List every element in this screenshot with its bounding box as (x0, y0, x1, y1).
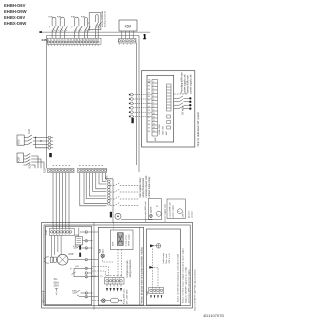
svg-text:EHBX-D9W: EHBX-D9W (4, 21, 26, 26)
svg-text:35: 35 (85, 259, 87, 261)
svg-text:X2M: X2M (41, 38, 48, 42)
svg-text:230 V + N: 230 V + N (169, 253, 171, 263)
svg-text:backup heater kit: backup heater kit (104, 11, 107, 27)
svg-text:Options: ON/OFF output (max. 0: Options: ON/OFF output (max. 0.3A) (184, 267, 187, 303)
svg-text:Notice: set heat source output: Notice: set heat source output, solar pu… (181, 248, 184, 303)
svg-text:10: 10 (74, 39, 76, 41)
svg-text:5: 5 (60, 39, 61, 41)
svg-text:4: 4 (153, 92, 154, 94)
svg-text:12: 12 (79, 39, 81, 41)
svg-text:3: 3 (54, 39, 55, 41)
svg-text:7: 7 (153, 103, 154, 105)
svg-text:X10A X11A: X10A X11A (158, 124, 161, 135)
svg-text:X2M: X2M (44, 168, 47, 173)
svg-text:X3A: X3A (99, 248, 102, 253)
svg-text:Only for EHBH/X with PCB optio: Only for EHBH/X with PCB option installe… (193, 269, 196, 311)
svg-text:contact: contact (190, 211, 193, 218)
svg-text:13: 13 (82, 39, 84, 41)
svg-text:4: 4 (57, 39, 58, 41)
svg-text:contact output relay: contact output relay (148, 176, 151, 198)
svg-text:CN1 CN2: CN1 CN2 (163, 125, 165, 135)
svg-text:Indoor unit: Indoor unit (162, 253, 165, 264)
svg-text:SV relay: SV relay (182, 105, 185, 115)
svg-text:18: 18 (97, 39, 99, 41)
svg-text:~: ~ (178, 210, 180, 214)
svg-text:4D110707D: 4D110707D (203, 313, 224, 318)
svg-text:only for EKBUHA: only for EKBUHA (101, 10, 104, 27)
svg-text:F2B: F2B (57, 17, 62, 19)
svg-text:17: 17 (94, 39, 96, 41)
svg-text:1N~ 230V 50Hz: 1N~ 230V 50Hz (126, 289, 128, 304)
svg-text:1: 1 (48, 39, 49, 41)
svg-text:K3M: K3M (75, 235, 80, 237)
svg-text:X2M: X2M (106, 176, 109, 181)
svg-text:A2P: A2P (165, 130, 168, 135)
svg-text:EHBX-D6V: EHBX-D6V (4, 15, 25, 20)
svg-text:1: 1 (153, 82, 154, 84)
svg-text:X5M: X5M (147, 291, 149, 296)
svg-text:9: 9 (71, 39, 72, 41)
svg-text:power supply unit: power supply unit (163, 204, 166, 221)
svg-text:preference kWh rate power supp: preference kWh rate power supply (187, 269, 190, 303)
svg-text:power supply: power supply (171, 204, 174, 217)
svg-text:K1M: K1M (18, 140, 21, 145)
svg-text:230V: 230V (54, 286, 60, 288)
svg-text:M2S: M2S (113, 241, 115, 246)
svg-text:9: 9 (153, 110, 154, 112)
svg-text:12: 12 (153, 120, 155, 122)
svg-text:EHBH/X PCB: EHBH/X PCB (44, 290, 46, 304)
svg-text:2: 2 (51, 39, 52, 41)
svg-text:6: 6 (153, 99, 154, 101)
svg-text:time hrs: time hrs (187, 211, 190, 218)
svg-text:X6M: X6M (125, 25, 132, 29)
svg-text:15: 15 (88, 39, 90, 41)
svg-text:Only for dedicated LWT system: Only for dedicated LWT system (197, 112, 200, 147)
svg-text:preferential kWh rate: preferential kWh rate (144, 200, 147, 221)
svg-text:M1P: M1P (69, 253, 74, 256)
svg-text:wiring connection: wiring connection (129, 259, 132, 277)
svg-text:8: 8 (68, 39, 69, 41)
svg-text:Valves: air purge valve and pu: Valves: air purge valve and pump connect… (141, 247, 144, 304)
svg-text:K2M: K2M (17, 157, 20, 162)
svg-text:EHBH-D6V: EHBH-D6V (4, 3, 26, 8)
svg-text:6: 6 (62, 39, 63, 41)
svg-text:10: 10 (153, 113, 155, 115)
svg-text:EHBH-D9W: EHBH-D9W (4, 9, 27, 14)
svg-text:3-way valve: 3-way valve (126, 234, 128, 246)
svg-text:F1B: F1B (49, 17, 54, 19)
svg-text:SPST output: SPST output (128, 234, 131, 246)
svg-text:F4B: F4B (81, 17, 86, 19)
svg-text:15: 15 (153, 131, 155, 133)
svg-text:X1M: X1M (45, 230, 48, 235)
svg-text:power supply unit: power supply unit (190, 74, 193, 93)
svg-text:wht: wht (101, 249, 104, 253)
svg-text:13: 13 (153, 124, 155, 126)
svg-text:7: 7 (65, 39, 66, 41)
svg-text:K2M: K2M (29, 164, 32, 169)
svg-text:11: 11 (153, 117, 155, 119)
svg-text:1N~: 1N~ (54, 279, 59, 281)
svg-text:50Hz: 50Hz (54, 282, 60, 284)
svg-text:~: ~ (157, 212, 159, 216)
svg-text:A1P: A1P (154, 136, 157, 141)
svg-text:K1M: K1M (73, 246, 78, 248)
svg-text:8: 8 (153, 106, 154, 108)
svg-text:Compressor unit: Compressor unit (126, 260, 129, 277)
svg-text:11: 11 (77, 39, 79, 41)
svg-text:K1M: K1M (28, 129, 31, 134)
svg-text:14: 14 (85, 39, 87, 41)
svg-text:30: 30 (85, 232, 87, 234)
svg-text:Pump M1P conn.: Pump M1P conn. (123, 288, 125, 304)
svg-text:F3B: F3B (71, 17, 76, 19)
svg-text:Max. load: Max. load (166, 253, 168, 263)
svg-text:16: 16 (91, 39, 93, 41)
svg-text:Notice: all field wires and pu: Notice: all field wires and pump connect… (177, 254, 180, 302)
svg-text:2: 2 (153, 85, 154, 87)
svg-text:230 V: 230 V (183, 211, 185, 217)
svg-text:3: 3 (153, 89, 154, 91)
svg-text:normal kWh rate: normal kWh rate (168, 201, 171, 217)
svg-text:K4M: K4M (72, 291, 77, 293)
svg-text:5: 5 (153, 96, 154, 98)
svg-text:14: 14 (153, 127, 155, 129)
